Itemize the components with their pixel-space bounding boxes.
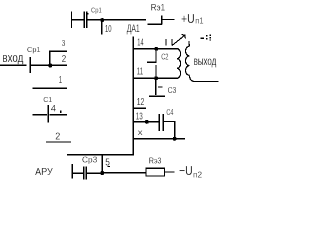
capacitor Cp1 top plate1 <box>83 12 85 29</box>
svg-text:5: 5 <box>105 158 110 169</box>
svg-text:14: 14 <box>137 37 143 48</box>
capacitor C4 plate2 <box>162 114 164 131</box>
transformer T1 left winding <box>177 49 181 78</box>
wire pin11 stub <box>133 77 178 79</box>
svg-text:2: 2 <box>55 132 60 143</box>
capacitor C2 plate <box>147 61 157 63</box>
wire agc lead a <box>73 172 83 174</box>
svg-text:С3: С3 <box>168 85 177 95</box>
svg-text:п2: п2 <box>193 171 203 180</box>
svg-text:С4: С4 <box>166 108 173 117</box>
wire pin1 stub <box>33 87 67 89</box>
svg-text:п1: п1 <box>195 17 204 26</box>
capacitor Cp1 input plate <box>29 57 31 73</box>
wire pin10 vertical <box>101 20 103 34</box>
wire pin2b stub <box>46 141 71 143</box>
tuning arrow <box>172 35 185 46</box>
svg-text:3: 3 <box>62 38 66 48</box>
node dot pin13 <box>145 120 149 124</box>
resistor R3 body <box>146 168 165 176</box>
IC DA1 right edge <box>132 37 134 155</box>
wire pin3 stub <box>49 50 67 52</box>
wire top main <box>87 19 146 21</box>
wire C4 down <box>174 122 176 139</box>
node dot pin14 <box>154 47 158 51</box>
svg-text:+U: +U <box>181 11 195 26</box>
capacitor Cp3 plate2 <box>85 167 87 180</box>
wire to +U <box>162 19 174 21</box>
svg-text:Rэ1: Rэ1 <box>151 3 165 13</box>
capacitor Cp3 plate1 <box>83 167 85 180</box>
svg-text:10: 10 <box>105 24 112 35</box>
capacitor C4 plate1 <box>158 114 160 131</box>
wire pin4 lead left <box>33 114 47 116</box>
wire pin13 stub <box>133 121 158 123</box>
capacitor C4 lead right <box>164 121 176 123</box>
capacitor C2 bottom lead <box>155 65 157 78</box>
wire pin14 stub <box>133 48 178 50</box>
wire pin8 stub <box>133 138 185 140</box>
capacitor C3 top lead <box>155 78 157 95</box>
wire pin12 stub <box>133 107 146 109</box>
wire input lead to pin2 <box>31 64 67 66</box>
wire vertical to pin3 <box>49 51 51 66</box>
wire input <box>0 64 27 66</box>
svg-text:С2: С2 <box>161 52 169 61</box>
node dot pin10 <box>100 18 104 22</box>
svg-text:−U: −U <box>179 163 193 178</box>
svg-text:2: 2 <box>62 54 67 65</box>
svg-text:выход: выход <box>194 54 217 68</box>
wire agc to resistor <box>104 172 146 174</box>
capacitor Cp1 top plate2 <box>86 12 88 29</box>
resistor R1 bottom edge <box>147 23 162 25</box>
node dot input <box>48 64 52 68</box>
node dot pin11 <box>154 76 158 80</box>
svg-text:4: 4 <box>51 103 57 114</box>
svg-text:ДА1: ДА1 <box>127 23 140 35</box>
wire IC bottom edge <box>67 154 134 156</box>
transformer T1 right winding <box>185 41 218 81</box>
svg-text:Rэ3: Rэ3 <box>149 156 162 166</box>
label dots cluster top right <box>60 13 211 167</box>
svg-text:13: 13 <box>136 111 143 122</box>
wire resistor R3 right stub <box>165 171 175 173</box>
svg-text:1: 1 <box>59 75 63 86</box>
core adjustment ticks <box>166 39 172 45</box>
capacitor Cp3 left bar <box>71 164 73 179</box>
wire pin4 lead right <box>50 114 68 116</box>
stray dash near C3 <box>158 86 163 88</box>
wire pin5 vertical <box>101 155 103 173</box>
node dot agc <box>100 171 104 175</box>
wire agc lead b <box>87 172 101 174</box>
capacitor C1 plate <box>47 105 49 123</box>
svg-text:11: 11 <box>137 66 144 77</box>
svg-text:вход: вход <box>2 50 23 65</box>
capacitor C3 plate <box>149 95 165 97</box>
svg-text:х: х <box>138 128 143 137</box>
svg-text:АРУ: АРУ <box>35 167 53 178</box>
wire top lead a <box>72 19 84 21</box>
capacitor C2 top lead <box>155 49 157 61</box>
svg-text:Ср1: Ср1 <box>27 45 41 54</box>
svg-text:Ср1: Ср1 <box>91 6 102 15</box>
capacitor Cp1 top: left bar <box>71 12 73 29</box>
node dot pin8 <box>173 137 177 141</box>
svg-text:Ср3: Ср3 <box>82 155 98 164</box>
svg-text:12: 12 <box>137 97 145 108</box>
resistor R1 right edge <box>161 15 163 24</box>
